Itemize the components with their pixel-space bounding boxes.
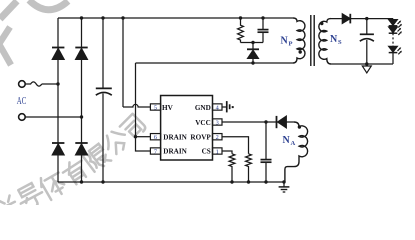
wire VCC: [222, 121, 276, 123]
svg-text:GND: GND: [195, 104, 211, 112]
wire drain to pin6: [136, 136, 151, 138]
pin 2 box: [213, 134, 223, 140]
svg-text:1: 1: [216, 148, 219, 155]
wire right bridge leg: [81, 18, 83, 182]
node snubber drain: [251, 61, 254, 64]
node bottom-R2: [230, 180, 233, 183]
node Ns phase dot: [320, 22, 323, 25]
wire bottom rail: [58, 181, 284, 183]
wire drain vertical: [135, 63, 137, 137]
svg-text:VCC: VCC: [195, 119, 211, 127]
svg-text:N: N: [281, 36, 289, 47]
wire snubber node: [241, 42, 264, 44]
node rail-R1: [239, 16, 242, 19]
decorative watermark (drawn first, behind circuit): [0, 0, 147, 224]
wire GND pin to ground: [222, 106, 226, 108]
pin 6 box: [150, 134, 160, 140]
diode D4: [75, 143, 87, 155]
node bottom-gnd: [282, 180, 285, 183]
svg-text:N: N: [330, 34, 338, 45]
svg-text:7: 7: [154, 148, 157, 155]
wire CS: [222, 151, 232, 154]
terminal AC line 1: [19, 81, 26, 88]
transformer secondary Ns: [319, 19, 331, 64]
ground IC GND (rotated bars): [226, 101, 234, 112]
wire left bridge leg: [57, 18, 59, 182]
transformer core: [311, 15, 314, 66]
node out-cap top: [365, 17, 368, 20]
pin 5 box: [150, 104, 160, 110]
node rail-HV: [121, 16, 124, 19]
terminal AC line 2: [19, 114, 26, 121]
svg-text:S: S: [338, 39, 342, 46]
wire bulk cap branch: [102, 18, 104, 182]
wire secondary top: [331, 18, 393, 20]
node bottom-R3: [247, 180, 250, 183]
transformer aux winding Na: [285, 122, 308, 182]
node bottom-D4: [80, 180, 83, 183]
node bottom-C1: [101, 180, 104, 183]
diode D5 (snubber clamp): [247, 43, 259, 64]
svg-text:ROVP: ROVP: [190, 133, 211, 141]
svg-text:N: N: [283, 135, 291, 146]
diode D2: [75, 48, 87, 60]
node AC2: [80, 115, 83, 118]
node VCC-C4: [264, 120, 267, 123]
svg-text:CS: CS: [202, 148, 211, 156]
svg-text:3: 3: [216, 119, 219, 126]
resistor R2 (CS): [229, 154, 235, 182]
svg-text:2: 2: [216, 134, 219, 141]
svg-text:AC: AC: [17, 96, 27, 107]
LED LED2: [389, 26, 402, 35]
pin 1 box: [213, 148, 223, 154]
capacitor C1 (bulk, polarized): [96, 88, 112, 95]
node out-cap bottom: [365, 62, 368, 65]
node Na phase dot: [298, 125, 301, 128]
pin 7 box: [150, 148, 160, 154]
capacitor C4 (VCC): [261, 122, 272, 182]
node snubber RC: [251, 41, 254, 44]
LED LED1: [389, 19, 402, 28]
wire AC2 to bridge: [25, 116, 81, 118]
svg-text:HV: HV: [162, 104, 174, 112]
svg-text:5: 5: [154, 104, 157, 111]
ground primary (earth): [279, 182, 290, 192]
svg-text:P: P: [289, 41, 293, 48]
fuse F1: [25, 82, 42, 86]
wire AC1 to bridge: [42, 83, 58, 85]
svg-text:DRAIN: DRAIN: [163, 148, 187, 156]
capacitor C2 (snubber): [258, 18, 269, 43]
ground secondary (open triangle): [362, 64, 371, 73]
wire top rail: [58, 17, 293, 19]
diode D1: [52, 48, 64, 60]
capacitor C3 (output, polarized): [360, 19, 374, 64]
diode D7 (VCC rectifier): [277, 116, 287, 128]
node rail-C1: [101, 16, 104, 19]
node bottom-C4: [264, 180, 267, 183]
wire drain rail to primary: [136, 62, 294, 64]
node AC1: [56, 82, 59, 85]
diode D3: [52, 143, 64, 155]
pin 4 box: [213, 104, 223, 110]
wire ROVP: [222, 137, 249, 154]
wire secondary bottom: [331, 63, 393, 65]
pin 3 box: [213, 119, 223, 125]
wire HV with hop over drain line: [123, 104, 150, 107]
node drain branch: [134, 135, 137, 138]
svg-text:A: A: [291, 140, 296, 147]
resistor R3 (ROVP): [246, 154, 252, 182]
transformer primary Np: [293, 18, 305, 63]
wire LED bottom: [392, 53, 394, 64]
wire dashed (more LEDs): [392, 33, 394, 45]
node rail-C2: [261, 16, 264, 19]
IC U1 body: [161, 96, 213, 161]
LED LED3: [389, 46, 402, 55]
svg-text:DRAIN: DRAIN: [163, 133, 187, 141]
svg-text:6: 6: [154, 134, 157, 141]
wire drain to pin7: [136, 137, 151, 151]
node rail-D2: [80, 16, 83, 19]
wire diode to Na: [286, 121, 294, 123]
wire HV feed from rail: [122, 18, 124, 107]
node Np phase dot: [299, 50, 302, 53]
diode D6 (output rectifier): [342, 14, 350, 24]
resistor R1 (snubber): [238, 18, 244, 43]
